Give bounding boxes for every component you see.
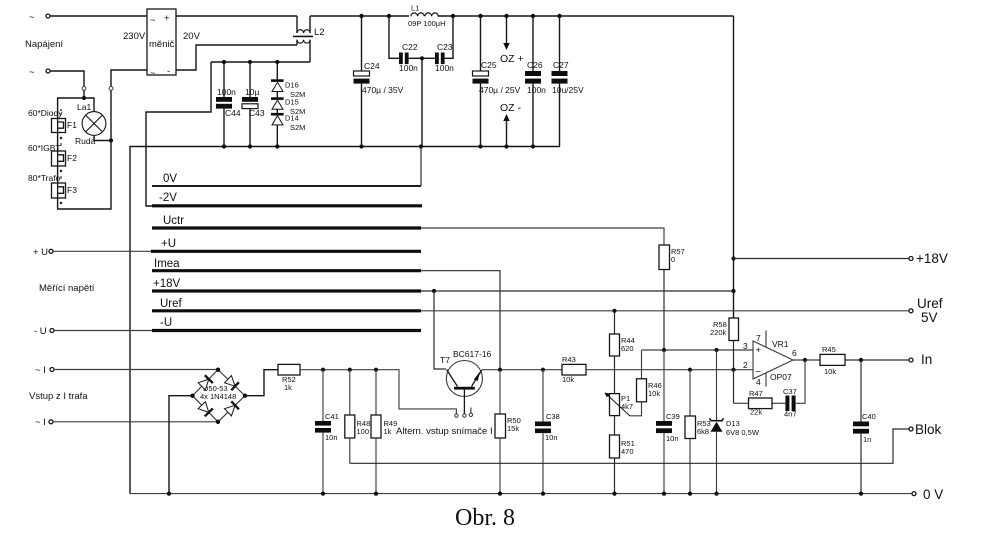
- svg-text:100: 100: [357, 427, 370, 436]
- bus Uctr: [152, 215, 421, 228]
- mark above F1: [60, 109, 62, 115]
- lamp La1: [75, 102, 106, 146]
- mark F2-F3: [60, 170, 62, 179]
- capacitor C43: [242, 62, 265, 147]
- capacitor C40: [853, 360, 876, 494]
- svg-text:C43: C43: [249, 108, 265, 118]
- svg-text:0: 0: [671, 255, 675, 264]
- svg-text:+18V: +18V: [153, 278, 181, 290]
- capacitor C44: [216, 62, 241, 147]
- wire ~I upper to bridge: [54, 369, 218, 371]
- wire Uctr to R57: [421, 228, 664, 245]
- resistor R58: [710, 318, 739, 341]
- svg-text:Imea: Imea: [154, 258, 180, 270]
- capacitor C24: [354, 16, 404, 147]
- wire R51 to 0V: [614, 458, 616, 494]
- node 0V R51: [612, 492, 616, 496]
- wire mid branch down: [421, 58, 423, 146]
- svg-text:3: 3: [743, 341, 748, 351]
- resistor R43: [562, 355, 586, 384]
- svg-text:100n: 100n: [399, 63, 418, 73]
- node bridge left: [190, 394, 194, 398]
- svg-text:D13: D13: [726, 419, 740, 428]
- potentiometer P1: [605, 393, 634, 417]
- zener D13: [710, 350, 760, 494]
- node D14 bottom: [275, 144, 279, 148]
- svg-text:C39: C39: [666, 412, 680, 421]
- resistor R57: [659, 245, 685, 270]
- svg-text:~: ~: [150, 15, 156, 26]
- svg-text:10k: 10k: [648, 389, 660, 398]
- svg-text:1k: 1k: [284, 383, 292, 392]
- bus Imea: [152, 258, 421, 271]
- wire menic minus to L2 bottom: [176, 45, 297, 70]
- node 0V C41: [321, 492, 325, 496]
- svg-text:+U: +U: [161, 238, 176, 250]
- svg-text:D15: D15: [285, 98, 299, 107]
- svg-text:Obr. 8: Obr. 8: [455, 505, 515, 531]
- fuse F2: [52, 151, 78, 166]
- capacitor C39: [656, 350, 680, 494]
- inductor L1: [408, 4, 446, 29]
- rail 0V power y146: [130, 147, 560, 494]
- wire R46 to P1 wiper: [630, 402, 642, 416]
- node C41 tap: [321, 368, 325, 372]
- svg-text:BC617-16: BC617-16: [453, 349, 492, 359]
- wire opamp output: [793, 359, 820, 361]
- svg-text:100n: 100n: [217, 87, 236, 97]
- resistor R50: [495, 370, 521, 438]
- node +18V to T7: [432, 289, 436, 293]
- node C43 bottom: [248, 144, 252, 148]
- bus +18V: [152, 278, 421, 291]
- node output feedback: [803, 358, 807, 362]
- svg-text:D14: D14: [285, 114, 299, 123]
- node C25 top: [478, 14, 482, 18]
- svg-text:C24: C24: [364, 61, 380, 71]
- svg-text:~ I: ~ I: [35, 417, 46, 428]
- resistor R47: [734, 389, 773, 417]
- capacitor C22: [389, 16, 422, 73]
- svg-text:-2V: -2V: [159, 192, 177, 204]
- node +18V terminal tap: [731, 256, 735, 260]
- connector pin right: [109, 87, 113, 91]
- node C44 top: [222, 60, 226, 64]
- mark F1-F2: [60, 137, 62, 146]
- wire Imea branch: [421, 271, 500, 370]
- capacitor C25: [473, 16, 521, 147]
- wire R58 to feedback node: [733, 341, 735, 404]
- node 0V R53: [688, 492, 692, 496]
- wire +U terminal: [53, 250, 151, 252]
- svg-text:4: 4: [756, 377, 761, 387]
- svg-text:Uref: Uref: [917, 296, 943, 311]
- svg-text:Uref: Uref: [160, 298, 183, 310]
- svg-text:10k: 10k: [562, 375, 574, 384]
- svg-text:Měřící napětí: Měřící napětí: [39, 283, 95, 294]
- svg-text:0V: 0V: [163, 173, 177, 185]
- node +input D13: [714, 348, 718, 352]
- svg-text:C41: C41: [325, 412, 339, 421]
- node C24 bottom: [359, 144, 363, 148]
- op-amp VR1 OP07: [743, 331, 797, 388]
- wire connector to fuse node: [83, 91, 85, 99]
- svg-text:-: -: [167, 66, 170, 77]
- wire node to lamp top: [84, 98, 94, 112]
- terminal -U: [34, 326, 54, 337]
- svg-text:D16: D16: [285, 81, 299, 90]
- bus 0V: [152, 173, 421, 186]
- bus +U: [151, 238, 421, 251]
- node C38 tap: [541, 368, 545, 372]
- svg-text:Ruda: Ruda: [75, 136, 96, 146]
- resistor R52: [278, 364, 300, 392]
- capacitor C38: [535, 370, 560, 494]
- node lamp to return line: [109, 138, 113, 142]
- wire F1 to F2: [57, 133, 59, 152]
- node +18V at rail drop: [731, 289, 735, 293]
- arrow OZ+: [500, 16, 524, 65]
- svg-text:+18V: +18V: [916, 251, 948, 266]
- svg-text:C22: C22: [402, 42, 418, 52]
- node bridge top: [216, 368, 220, 372]
- wire T7 collector feed: [434, 291, 446, 369]
- svg-text:5V: 5V: [921, 310, 938, 325]
- capacitor C41: [315, 370, 339, 494]
- wire R53 to 0V: [689, 439, 691, 494]
- svg-text:470µ / 25V: 470µ / 25V: [479, 85, 521, 95]
- svg-text:L1: L1: [411, 4, 419, 13]
- diode bridge bottom-right: [225, 401, 239, 416]
- node 0V D13: [714, 492, 718, 496]
- node C26 top: [531, 14, 535, 18]
- node bridge right: [243, 394, 247, 398]
- svg-text:2: 2: [743, 360, 748, 370]
- bus -2V: [152, 192, 422, 206]
- node D16 top: [275, 60, 279, 64]
- svg-text:Altern. vstup snímače I: Altern. vstup snímače I: [396, 426, 493, 437]
- terminal ~I lower: [35, 417, 53, 428]
- wire R48 to Blok net: [349, 438, 351, 463]
- wire bridge right to R52: [245, 370, 278, 396]
- resistor R46: [637, 350, 662, 402]
- arrow OZ-: [500, 102, 521, 147]
- svg-text:-U: -U: [160, 317, 172, 329]
- svg-text:6: 6: [792, 348, 797, 358]
- svg-text:- U: - U: [34, 326, 47, 337]
- svg-text:10k: 10k: [824, 367, 836, 376]
- svg-text:C25: C25: [481, 60, 497, 70]
- diode bridge bottom-left: [198, 402, 213, 417]
- wire +18V terminal: [734, 258, 910, 260]
- svg-text:R43: R43: [562, 355, 576, 364]
- resistor R44: [610, 311, 635, 356]
- wire R45 to In: [845, 359, 909, 361]
- svg-text:620: 620: [621, 344, 634, 353]
- wire T7 emitter line: [482, 369, 562, 371]
- node R49 tap: [374, 368, 378, 372]
- bridge D50-53 diamond: [193, 370, 246, 422]
- node 0V C40: [859, 492, 863, 496]
- svg-text:10n: 10n: [666, 434, 679, 443]
- svg-text:10n: 10n: [545, 433, 558, 442]
- inductor L2 common-mode choke: [293, 16, 325, 62]
- node C43 top: [248, 60, 252, 64]
- terminal ~I upper: [35, 365, 54, 376]
- resistor R49: [371, 370, 397, 438]
- bus Uref: [152, 298, 421, 311]
- node C25 bottom: [478, 144, 482, 148]
- wire noninverting input line: [642, 349, 754, 351]
- svg-text:F3: F3: [67, 185, 77, 195]
- svg-text:60*Diody: 60*Diody: [28, 108, 63, 118]
- svg-text:C37: C37: [783, 387, 797, 396]
- wire Uref net: [421, 310, 909, 312]
- svg-text:100n: 100n: [527, 85, 546, 95]
- node R53 tap: [688, 368, 692, 372]
- svg-text:OZ +: OZ +: [500, 53, 524, 65]
- svg-text:22k: 22k: [750, 408, 762, 417]
- wire P1 to R51: [614, 416, 616, 435]
- wire bridge left to 0V: [169, 396, 193, 494]
- wire 0V bottom line: [130, 493, 912, 495]
- svg-text:měnič: měnič: [149, 39, 175, 50]
- wire -U terminal: [54, 330, 152, 332]
- resistor R51: [610, 435, 635, 458]
- svg-text:+: +: [164, 13, 170, 24]
- wire menic N input down: [111, 70, 147, 86]
- wire R49 to 0V: [375, 438, 377, 494]
- terminal mains ~ top: [29, 12, 50, 23]
- node fuse-lamp junction: [82, 96, 86, 100]
- svg-text:20V: 20V: [183, 31, 201, 42]
- svg-text:S2M: S2M: [290, 123, 305, 132]
- wire R50 to 0V: [499, 438, 501, 494]
- svg-text:6k8: 6k8: [697, 427, 709, 436]
- transformer menic: [147, 9, 176, 79]
- wire feedback down: [796, 360, 805, 403]
- node Uref to R44: [612, 309, 616, 313]
- svg-text:10µ: 10µ: [245, 87, 259, 97]
- svg-text:1n: 1n: [863, 435, 871, 444]
- wire Blok net: [350, 429, 909, 463]
- node 0V C39: [662, 492, 666, 496]
- wire R57 to +input node: [663, 270, 665, 351]
- svg-text:1k: 1k: [384, 427, 392, 436]
- wire +20V drop right side: [733, 16, 735, 318]
- svg-text:C38: C38: [546, 412, 560, 421]
- svg-text:F2: F2: [67, 153, 77, 163]
- wire +18V net: [421, 290, 734, 292]
- terminal Uref 5V: [909, 296, 943, 325]
- fuse F1: [52, 119, 78, 133]
- wire mains N to connector: [50, 71, 84, 86]
- node 0V R50: [498, 492, 502, 496]
- svg-text:F1: F1: [67, 120, 77, 130]
- node 0V bridge return: [167, 492, 171, 496]
- node 0V R49: [374, 492, 378, 496]
- svg-text:+ U: + U: [33, 247, 48, 258]
- svg-text:In: In: [921, 352, 932, 367]
- diode bridge top-left: [198, 375, 213, 390]
- connector pin left: [82, 87, 86, 91]
- svg-text:0 V: 0 V: [923, 487, 943, 502]
- resistor R48: [345, 370, 370, 438]
- wire +20V rail menic to L2: [176, 15, 297, 17]
- capacitor C27: [552, 16, 584, 147]
- svg-text:~: ~: [29, 67, 35, 78]
- svg-text:+: +: [756, 345, 762, 356]
- fuse F3: [52, 183, 78, 198]
- svg-text:Blok: Blok: [915, 422, 942, 437]
- node C26 bottom: [531, 144, 535, 148]
- svg-text:T7: T7: [440, 355, 450, 365]
- diode D15: [271, 97, 305, 116]
- node OZ+ top: [504, 14, 508, 18]
- wire inverting input line: [586, 369, 753, 371]
- svg-text:15k: 15k: [507, 424, 519, 433]
- svg-text:10n: 10n: [325, 433, 338, 442]
- terminal Blok: [909, 422, 942, 437]
- wire R44 to P1: [614, 356, 616, 394]
- wire mains L to menic: [50, 15, 147, 17]
- svg-text:Uctr: Uctr: [163, 215, 184, 227]
- svg-text:C26: C26: [527, 60, 543, 70]
- wire F2 to F3: [57, 166, 59, 183]
- wire return vertical: [58, 91, 111, 210]
- node +input R57: [662, 348, 666, 352]
- svg-text:470: 470: [621, 447, 634, 456]
- terminal mains ~ bottom: [29, 67, 50, 78]
- svg-text:10u/25V: 10u/25V: [552, 85, 584, 95]
- node C24 top: [359, 14, 363, 18]
- svg-text:Napájení: Napájení: [25, 39, 63, 50]
- node 0Vbus riser: [419, 144, 423, 148]
- svg-text:VR1: VR1: [772, 339, 789, 349]
- bus -U: [152, 317, 421, 331]
- terminal In: [909, 352, 932, 367]
- node L1 right: [451, 14, 455, 18]
- terminal +18V: [909, 251, 948, 266]
- svg-text:L2: L2: [314, 27, 325, 38]
- wire node to fuse chain: [58, 98, 84, 119]
- capacitor C37: [772, 387, 797, 419]
- wire R52 output net: [300, 370, 456, 414]
- diode bridge top-right: [225, 376, 239, 391]
- node R48 tap: [348, 368, 352, 372]
- transistor T7: [440, 349, 492, 414]
- svg-text:C44: C44: [225, 108, 241, 118]
- node C22 C23 mid: [420, 56, 424, 60]
- svg-text:−: −: [756, 367, 762, 378]
- wire top rail L2 to corner: [310, 15, 734, 17]
- svg-text:220k: 220k: [710, 328, 727, 337]
- resistor R53: [685, 370, 711, 439]
- svg-text:4n7: 4n7: [784, 410, 797, 419]
- node bridge bottom: [216, 420, 220, 424]
- svg-text:R45: R45: [822, 345, 836, 354]
- svg-text:~: ~: [29, 12, 35, 23]
- svg-text:R47: R47: [749, 389, 763, 398]
- node R50 tap: [498, 368, 502, 372]
- node C22 branch top: [387, 14, 391, 18]
- svg-text:~ I: ~ I: [35, 365, 46, 376]
- capacitor C23: [422, 16, 454, 73]
- svg-text:100n: 100n: [435, 63, 454, 73]
- svg-text:Vstup z I trafa: Vstup z I trafa: [29, 391, 88, 402]
- svg-text:C27: C27: [553, 60, 569, 70]
- svg-text:La1: La1: [77, 102, 91, 112]
- terminal 0V: [912, 487, 943, 502]
- svg-text:OZ -: OZ -: [500, 102, 521, 114]
- node C44 bottom: [222, 144, 226, 148]
- node OZ- bottom: [504, 144, 508, 148]
- svg-text:6V8 0,5W: 6V8 0,5W: [726, 428, 760, 437]
- svg-text:4k7: 4k7: [621, 402, 633, 411]
- node C27 top: [557, 14, 561, 18]
- node C40 tap: [859, 358, 863, 362]
- svg-text:09P 100µH: 09P 100µH: [408, 19, 446, 28]
- svg-text:OP07: OP07: [770, 372, 792, 382]
- node 0V C38: [541, 492, 545, 496]
- diode D16: [271, 62, 305, 99]
- node feedback tap: [731, 368, 735, 372]
- svg-text:4x 1N4148: 4x 1N4148: [200, 392, 236, 401]
- svg-text:470µ / 35V: 470µ / 35V: [362, 85, 404, 95]
- connector pins T7 base: [455, 408, 473, 418]
- diode D14: [271, 113, 305, 147]
- wire ~I lower to bridge: [53, 421, 218, 423]
- wire 0V bus riser: [420, 147, 422, 187]
- svg-text:C40: C40: [862, 412, 876, 421]
- capacitor C26: [525, 16, 546, 147]
- mark below F3: [60, 202, 62, 204]
- svg-text:7: 7: [756, 333, 761, 343]
- svg-text:230V: 230V: [123, 31, 146, 42]
- svg-text:~: ~: [150, 68, 156, 79]
- rail y62: [146, 62, 310, 206]
- wire lamp bottom: [94, 135, 111, 140]
- svg-text:C23: C23: [437, 42, 453, 52]
- terminal +U: [33, 247, 53, 258]
- svg-text:80*Trafo: 80*Trafo: [28, 173, 61, 183]
- resistor R45: [820, 345, 845, 376]
